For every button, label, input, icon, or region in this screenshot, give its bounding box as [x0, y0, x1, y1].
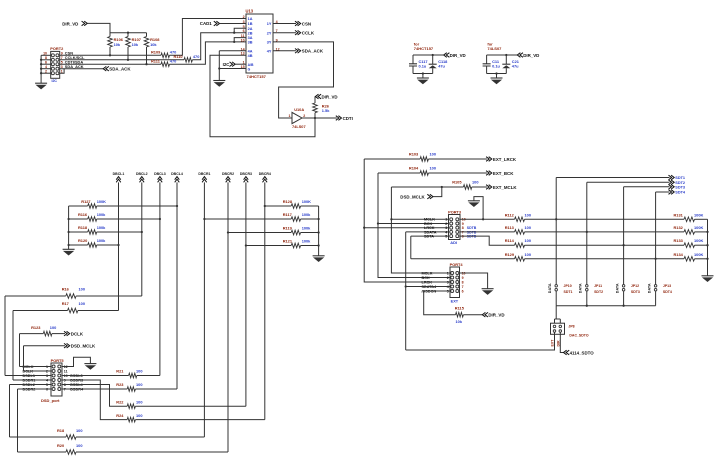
svg-text:2Y: 2Y — [267, 31, 272, 35]
svg-text:10: 10 — [241, 38, 245, 42]
svg-text:R112: R112 — [505, 212, 515, 217]
svg-text:R123: R123 — [31, 325, 41, 330]
svg-text:PORT4: PORT4 — [450, 262, 464, 267]
svg-text:R132: R132 — [674, 225, 684, 230]
svg-text:100: 100 — [472, 180, 479, 185]
svg-text:74LS07: 74LS07 — [292, 124, 306, 129]
svg-text:1Y: 1Y — [267, 22, 272, 26]
svg-text:DATA: DATA — [579, 283, 583, 293]
svg-text:DBCL4: DBCL4 — [171, 172, 183, 176]
svg-text:DSD_port: DSD_port — [41, 398, 60, 403]
svg-text:DATA: DATA — [647, 283, 651, 293]
svg-text:2A: 2A — [248, 27, 253, 31]
svg-text:BCK: BCK — [422, 276, 430, 280]
svg-text:JP8: JP8 — [568, 325, 574, 329]
svg-text:100: 100 — [79, 301, 86, 306]
svg-text:100: 100 — [136, 382, 143, 387]
svg-text:2: 2 — [243, 15, 245, 19]
svg-text:R16: R16 — [62, 287, 70, 292]
svg-text:10: 10 — [43, 52, 47, 56]
svg-text:R114: R114 — [505, 238, 515, 243]
svg-text:4Y: 4Y — [267, 49, 272, 53]
svg-text:EXT_BCK: EXT_BCK — [493, 171, 514, 176]
svg-text:DATA: DATA — [548, 283, 552, 293]
svg-text:3B: 3B — [248, 41, 253, 45]
svg-text:R127: R127 — [81, 199, 90, 204]
svg-text:ADI: ADI — [450, 240, 457, 245]
svg-text:JP11: JP11 — [594, 284, 602, 288]
svg-text:10k: 10k — [150, 42, 157, 47]
svg-text:SDT3: SDT3 — [675, 186, 685, 190]
svg-text:DSD_MCLK: DSD_MCLK — [400, 194, 425, 199]
svg-text:EXT: EXT — [451, 298, 459, 303]
svg-text:R104: R104 — [409, 166, 419, 171]
svg-text:1A: 1A — [248, 17, 253, 21]
svg-text:R116: R116 — [78, 212, 88, 217]
svg-text:R105: R105 — [452, 180, 462, 185]
svg-text:6: 6 — [45, 61, 47, 65]
svg-text:100: 100 — [525, 212, 532, 217]
svg-text:R131: R131 — [674, 212, 684, 217]
svg-text:I2C: I2C — [52, 79, 58, 83]
svg-text:PORT5: PORT5 — [51, 358, 65, 363]
svg-text:100k: 100k — [302, 226, 311, 231]
svg-text:JP10: JP10 — [564, 284, 572, 288]
svg-text:10k: 10k — [132, 42, 139, 47]
svg-text:JP12: JP12 — [631, 284, 639, 288]
svg-text:470: 470 — [170, 59, 177, 64]
svg-text:100: 100 — [136, 369, 143, 374]
svg-text:SDA_ACK: SDA_ACK — [302, 49, 324, 54]
svg-text:R18: R18 — [57, 428, 65, 433]
svg-text:DIR_VD: DIR_VD — [62, 22, 78, 27]
svg-text:11: 11 — [64, 369, 68, 373]
svg-text:I2C: I2C — [223, 62, 231, 67]
svg-text:SDT1: SDT1 — [564, 290, 573, 294]
svg-text:DBCR2: DBCR2 — [222, 172, 234, 176]
svg-text:DBCR3: DBCR3 — [240, 172, 252, 176]
svg-text:DSD_MCLK: DSD_MCLK — [71, 344, 96, 349]
svg-text:4B: 4B — [248, 54, 253, 58]
svg-text:SDA_ACK: SDA_ACK — [109, 66, 131, 71]
svg-text:3: 3 — [447, 280, 449, 284]
svg-text:100: 100 — [525, 225, 532, 230]
svg-text:SDT3: SDT3 — [631, 290, 640, 294]
svg-text:DBCR1: DBCR1 — [198, 172, 210, 176]
svg-text:DIR_VD: DIR_VD — [523, 53, 539, 58]
svg-text:47u: 47u — [438, 64, 445, 69]
svg-text:PORT2: PORT2 — [50, 46, 64, 51]
svg-text:R133: R133 — [674, 238, 684, 243]
svg-text:100: 100 — [76, 443, 83, 448]
svg-text:5: 5 — [445, 235, 447, 239]
svg-text:100K: 100K — [302, 199, 311, 204]
svg-text:R121: R121 — [283, 239, 293, 244]
svg-text:SDT2: SDT2 — [675, 181, 685, 185]
svg-text:4114_SDTO: 4114_SDTO — [570, 350, 595, 355]
svg-text:CDTI: CDTI — [343, 116, 353, 121]
svg-text:100: 100 — [136, 413, 143, 418]
svg-text:100k: 100k — [97, 238, 106, 243]
svg-text:SDT1: SDT1 — [675, 176, 685, 180]
svg-text:100k: 100k — [97, 225, 106, 230]
svg-text:4A: 4A — [248, 49, 253, 53]
svg-text:CAD1: CAD1 — [200, 21, 213, 26]
svg-text:100: 100 — [525, 238, 532, 243]
svg-text:PORT3: PORT3 — [448, 209, 462, 214]
svg-text:CSN: CSN — [302, 21, 311, 26]
svg-text:47u: 47u — [512, 64, 519, 69]
svg-text:MCLK: MCLK — [422, 271, 433, 275]
svg-text:2: 2 — [303, 114, 305, 118]
svg-text:100: 100 — [430, 152, 437, 157]
svg-text:100: 100 — [525, 252, 532, 257]
svg-text:R128: R128 — [283, 199, 293, 204]
svg-text:1.5k: 1.5k — [322, 108, 330, 113]
svg-text:R21: R21 — [116, 369, 124, 374]
svg-text:10k: 10k — [456, 319, 463, 324]
svg-text:DIR_VD: DIR_VD — [450, 53, 466, 58]
svg-text:DAC_SDTO: DAC_SDTO — [569, 334, 588, 338]
svg-text:DIR_VD: DIR_VD — [488, 313, 504, 318]
svg-text:U10A: U10A — [294, 107, 304, 112]
svg-text:100: 100 — [50, 325, 57, 330]
svg-text:R23: R23 — [116, 382, 124, 387]
svg-text:JP13: JP13 — [663, 284, 671, 288]
svg-text:10k: 10k — [114, 42, 121, 47]
svg-text:100K: 100K — [97, 199, 106, 204]
svg-text:R111: R111 — [151, 59, 161, 64]
svg-text:EXT: EXT — [551, 339, 555, 347]
svg-text:A/B: A/B — [248, 63, 254, 67]
svg-text:DBCR4: DBCR4 — [259, 172, 271, 176]
svg-text:100: 100 — [430, 166, 437, 171]
svg-text:EXT_LRCK: EXT_LRCK — [493, 157, 517, 162]
svg-text:SDTA: SDTA — [424, 235, 434, 239]
svg-text:8: 8 — [45, 56, 47, 60]
svg-text:100K: 100K — [694, 212, 703, 217]
svg-text:1B: 1B — [248, 22, 253, 26]
svg-text:DIR: DIR — [556, 340, 560, 347]
svg-text:470: 470 — [193, 54, 200, 59]
svg-text:LRCK: LRCK — [422, 280, 433, 284]
svg-text:R117: R117 — [283, 212, 292, 217]
svg-text:74HCT157: 74HCT157 — [414, 46, 434, 51]
svg-text:6: 6 — [462, 289, 464, 293]
svg-text:0.1u: 0.1u — [419, 64, 427, 69]
svg-text:R24: R24 — [116, 413, 124, 418]
svg-text:0.1u: 0.1u — [492, 64, 500, 69]
svg-text:DBCL3: DBCL3 — [154, 172, 166, 176]
svg-text:DBCL1: DBCL1 — [113, 172, 125, 176]
svg-text:R120: R120 — [78, 238, 87, 243]
svg-text:1: 1 — [447, 271, 449, 275]
svg-text:R119: R119 — [283, 226, 293, 231]
svg-text:R118: R118 — [78, 225, 88, 230]
svg-text:8: 8 — [462, 280, 464, 284]
svg-text:SDT2: SDT2 — [594, 290, 603, 294]
svg-text:9: 9 — [462, 276, 464, 280]
svg-text:R129: R129 — [505, 252, 515, 257]
svg-text:74LS07: 74LS07 — [487, 46, 502, 51]
svg-text:DIR_VD: DIR_VD — [322, 94, 338, 99]
svg-text:R17: R17 — [62, 301, 69, 306]
svg-text:DBCL2: DBCL2 — [136, 172, 148, 176]
svg-text:DATA: DATA — [615, 283, 619, 293]
svg-text:100: 100 — [136, 399, 143, 404]
svg-text:CCLK: CCLK — [302, 31, 315, 36]
svg-text:U13: U13 — [246, 8, 254, 13]
svg-text:SDT4: SDT4 — [663, 290, 672, 294]
svg-text:100k: 100k — [302, 239, 311, 244]
svg-text:SDT4: SDT4 — [675, 191, 686, 195]
svg-text:G: G — [248, 67, 251, 71]
svg-text:100k: 100k — [97, 212, 106, 217]
svg-text:100: 100 — [79, 287, 86, 292]
svg-text:2: 2 — [45, 70, 47, 74]
svg-text:100K: 100K — [694, 252, 703, 257]
svg-text:100: 100 — [76, 428, 83, 433]
svg-text:R113: R113 — [505, 225, 515, 230]
svg-text:2: 2 — [447, 276, 449, 280]
svg-text:4: 4 — [45, 65, 47, 69]
svg-text:R103: R103 — [409, 152, 419, 157]
svg-text:EXT_MCLK: EXT_MCLK — [493, 185, 517, 190]
svg-text:74HCT157: 74HCT157 — [247, 74, 267, 79]
svg-text:R109: R109 — [151, 50, 161, 55]
svg-text:R115: R115 — [455, 306, 465, 311]
svg-text:6: 6 — [243, 29, 245, 33]
svg-text:R134: R134 — [674, 252, 684, 257]
svg-text:1: 1 — [289, 114, 291, 118]
svg-text:100K: 100K — [694, 238, 703, 243]
svg-text:100K: 100K — [694, 225, 703, 230]
svg-text:100k: 100k — [302, 212, 311, 217]
svg-text:2B: 2B — [248, 31, 253, 35]
svg-text:7: 7 — [462, 285, 464, 289]
svg-text:R20: R20 — [57, 443, 64, 448]
svg-text:3Y: 3Y — [267, 41, 272, 45]
svg-text:SDA_ACK: SDA_ACK — [65, 64, 84, 69]
svg-text:DCLK: DCLK — [71, 331, 84, 336]
svg-text:R22: R22 — [116, 399, 124, 404]
